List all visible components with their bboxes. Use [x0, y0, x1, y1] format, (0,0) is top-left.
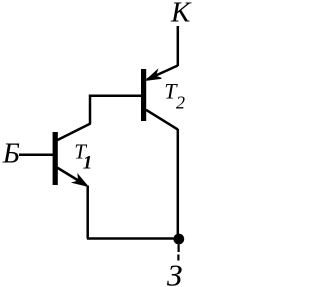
- svg-text:2: 2: [176, 93, 185, 113]
- wire base lead from B: [19, 153, 53, 156]
- wire emitter stub to E: [177, 245, 179, 261]
- svg-text:З: З: [167, 258, 182, 287]
- wire T1 emitter diagonal: [57, 168, 87, 186]
- arrowhead pointing into T2 base bar: [146, 70, 161, 80]
- svg-text:Б: Б: [2, 138, 20, 170]
- wire bottom horizontal: [87, 237, 179, 240]
- wire T2 base lead horizontal: [90, 94, 142, 97]
- wire T1 collector vertical segment: [89, 95, 92, 125]
- svg-text:1: 1: [83, 152, 93, 173]
- transistor T2 base bar: [141, 69, 146, 121]
- wire left vertical from T1 emitter: [86, 186, 89, 239]
- wire right vertical down to junction: [177, 129, 180, 239]
- svg-text:К: К: [170, 0, 192, 29]
- transistor T1 base bar: [53, 132, 58, 185]
- junction dot: [173, 234, 184, 245]
- wire collector lead from K: [177, 26, 180, 66]
- arrowhead on T1 emitter: [73, 175, 88, 187]
- wire T1 collector diagonal to base bar: [57, 124, 91, 141]
- wire T2 lower diagonal: [146, 110, 178, 130]
- wire T2 upper diagonal to K lead: [147, 66, 178, 80]
